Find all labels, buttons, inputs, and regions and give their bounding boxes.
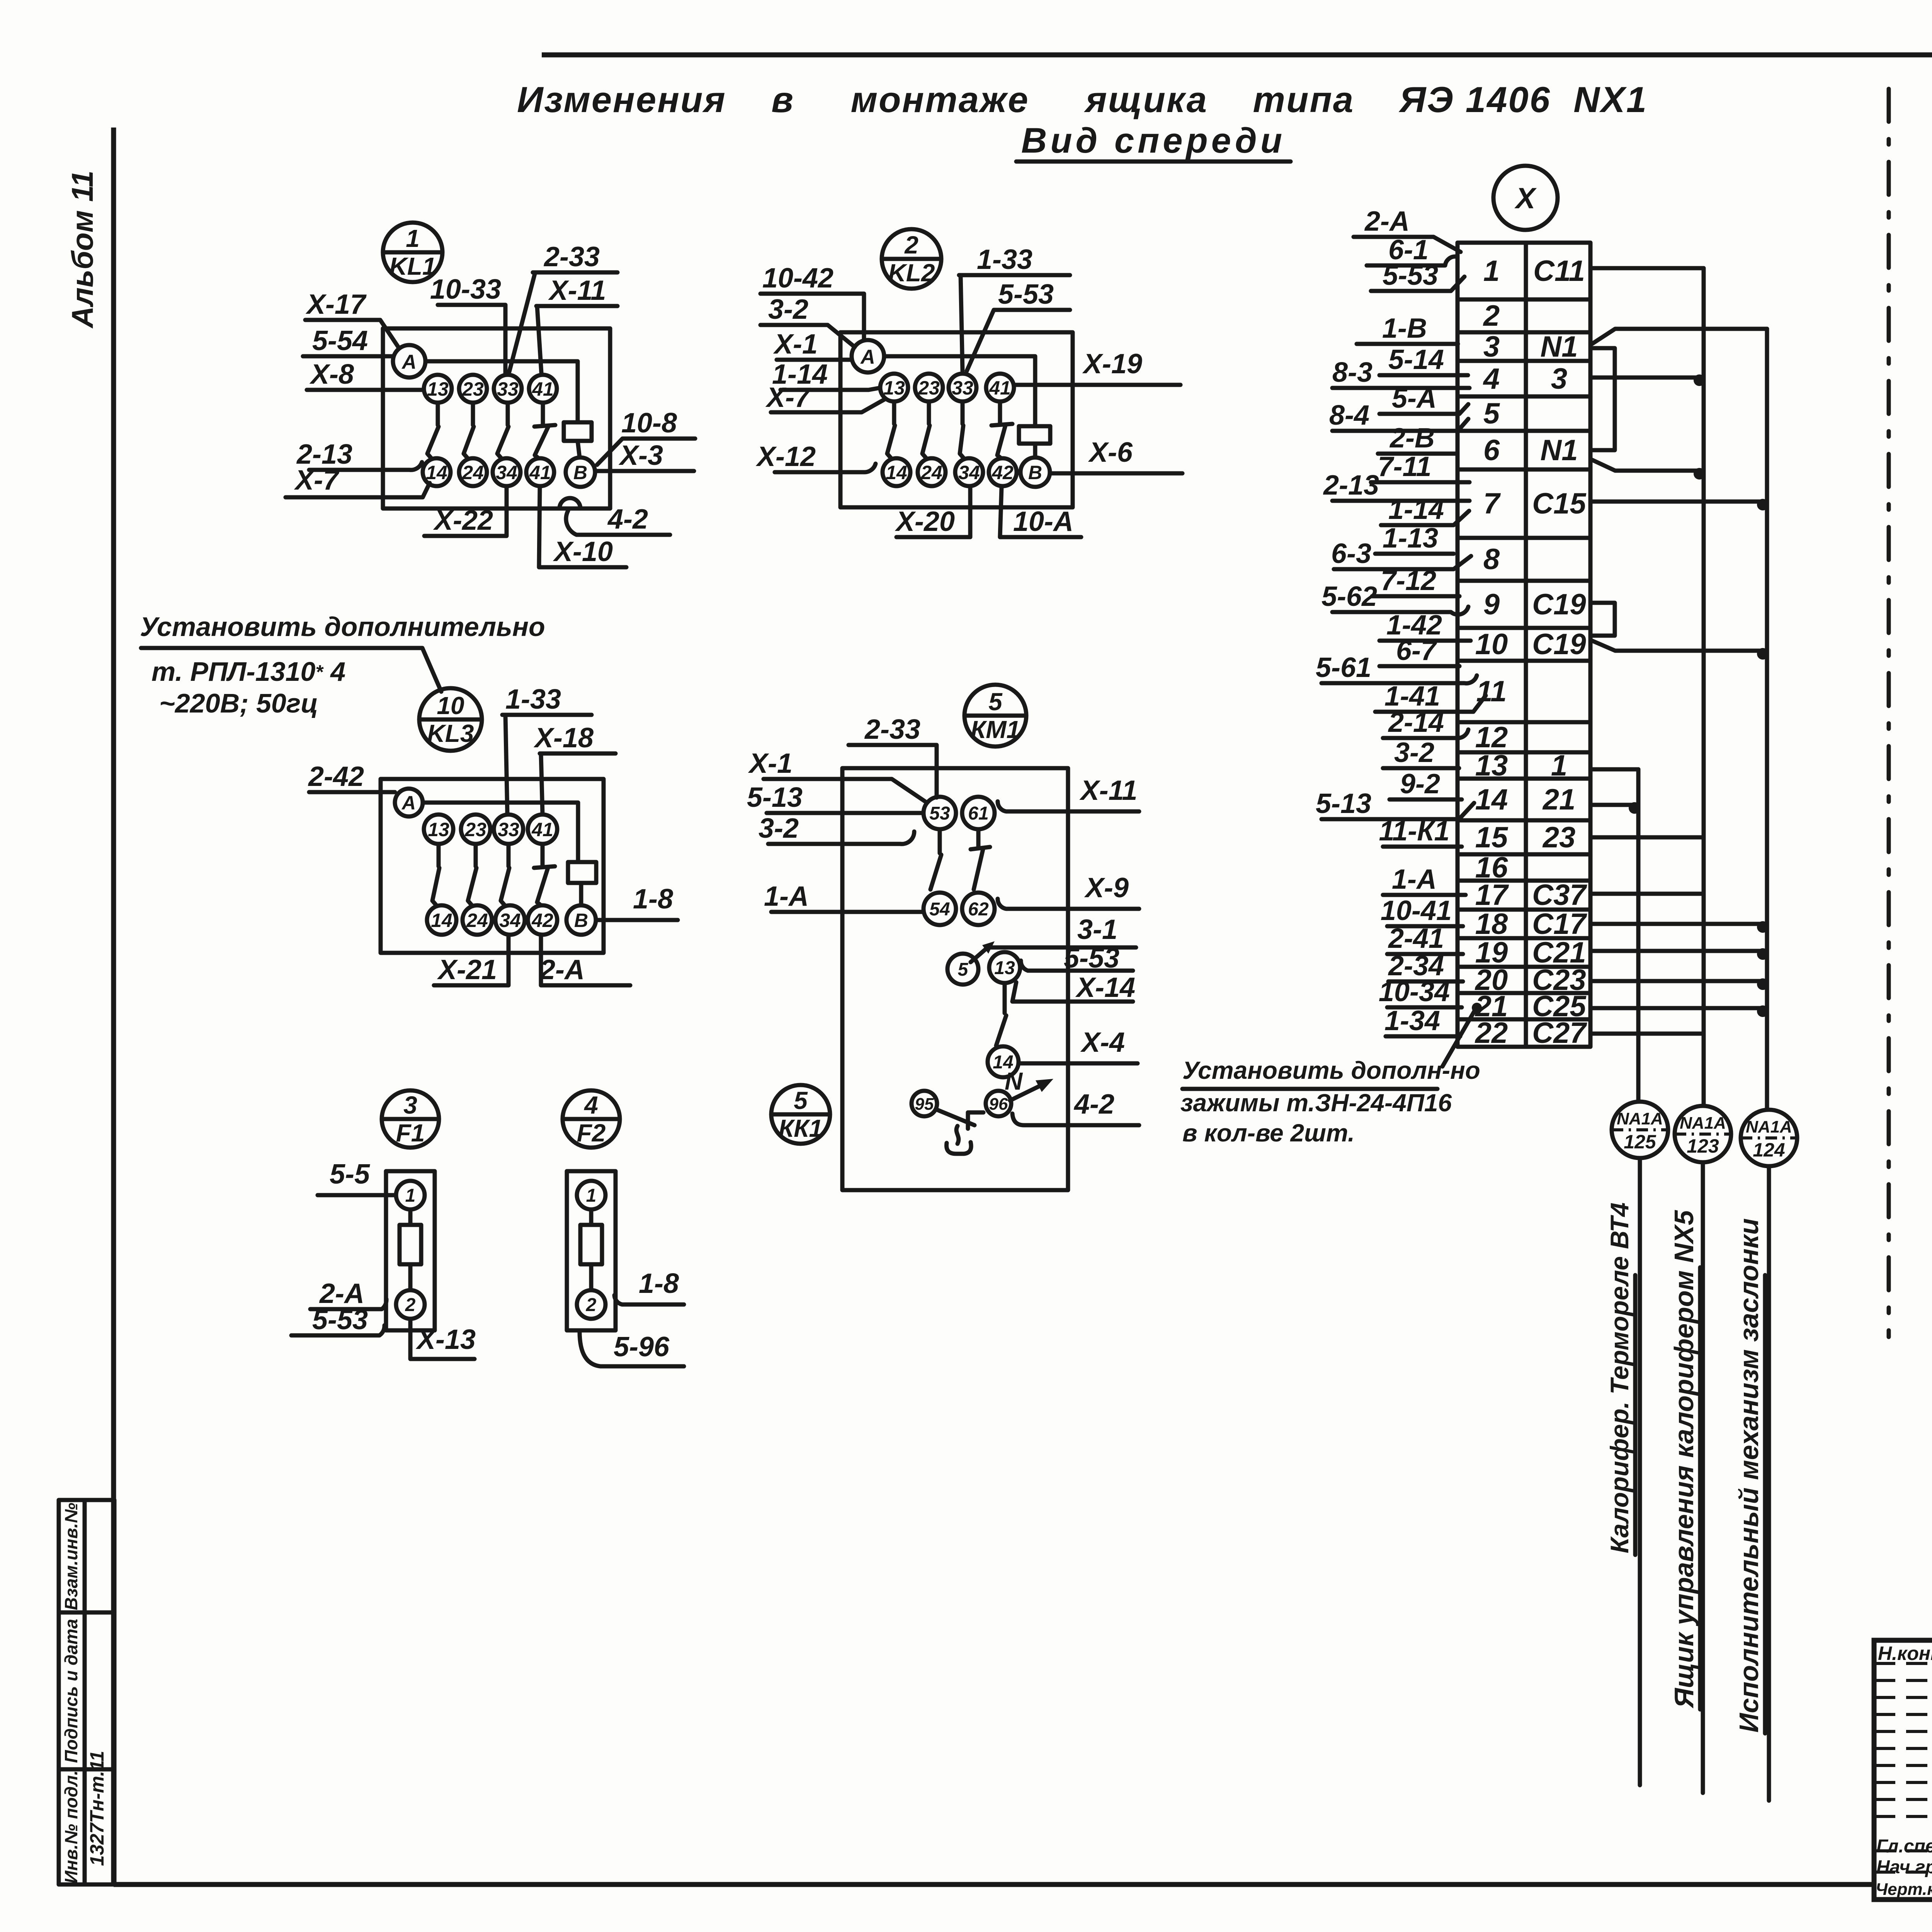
relay KL2 contact pin 33 — [949, 374, 976, 401]
wire 1-14 (KL2) — [772, 359, 879, 390]
svg-text:X-3: X-3 — [618, 440, 663, 471]
wire X-11 (KM1) — [998, 775, 1139, 811]
wire 1-33 (KL3) — [502, 684, 592, 814]
wire 2-13 (X7) — [1323, 470, 1469, 501]
wire 5-13 (KM1) — [747, 782, 923, 813]
svg-text:X-9: X-9 — [1084, 872, 1129, 903]
svg-text:N: N — [1005, 1067, 1023, 1095]
relay KL2 contact pin 14 — [883, 458, 910, 486]
svg-text:KL2: KL2 — [888, 259, 935, 287]
relay KL3 pin B — [566, 905, 596, 935]
svg-text:13: 13 — [883, 377, 905, 399]
wire X:7 to bus3 — [1592, 500, 1767, 504]
svg-text:1-13: 1-13 — [1383, 523, 1438, 554]
svg-text:2: 2 — [586, 1295, 597, 1315]
svg-text:5-53: 5-53 — [312, 1304, 368, 1335]
wire X:20 to bus3 — [1592, 979, 1767, 983]
svg-text:А: А — [401, 351, 417, 373]
wire X:14 to bus1 — [1592, 803, 1638, 807]
svg-text:23: 23 — [1542, 821, 1576, 854]
wire X-21 (KL3) — [434, 935, 509, 985]
svg-text:41: 41 — [532, 378, 554, 400]
wire 4-2 (KL1) — [566, 504, 670, 535]
wire 8-4 (X5) — [1329, 400, 1468, 431]
relay KL3 contact pin 33 — [494, 815, 523, 844]
svg-text:61: 61 — [968, 803, 988, 824]
svg-text:2-13: 2-13 — [1323, 470, 1379, 501]
svg-text:X-14: X-14 — [1075, 972, 1135, 1003]
relay KL1 contact pin 13 — [424, 375, 452, 403]
KM1 contact 13-14 — [996, 983, 1006, 1046]
relay KL1 contact pin 23 — [459, 375, 487, 403]
relay KL2 pin B — [1020, 457, 1050, 487]
svg-text:NА1А: NА1А — [1680, 1114, 1726, 1133]
svg-text:125: 125 — [1624, 1131, 1656, 1153]
wire X-1 (KM1) — [748, 748, 925, 801]
wire 5-53 (KM1) — [1021, 943, 1133, 974]
svg-text:X-4: X-4 — [1080, 1027, 1125, 1058]
svg-text:F1: F1 — [396, 1119, 425, 1147]
svg-text:8: 8 — [1483, 543, 1500, 576]
svg-text:7: 7 — [1483, 487, 1501, 520]
svg-text:15: 15 — [1475, 821, 1509, 854]
svg-text:2-А: 2-А — [1364, 206, 1410, 237]
relay KL3 pin A — [395, 789, 423, 816]
relay KL3 body outline — [381, 779, 604, 953]
KM1 contact 53-54 — [930, 829, 941, 889]
svg-text:11-К1: 11-К1 — [1379, 816, 1449, 847]
svg-text:КМ1: КМ1 — [971, 716, 1020, 743]
svg-text:2: 2 — [1483, 299, 1500, 332]
svg-text:24: 24 — [462, 462, 484, 483]
relay KL3 contact pin 41 — [528, 815, 557, 844]
bus wire to cable 125 — [1638, 769, 1640, 1785]
svg-text:2-14: 2-14 — [1388, 707, 1444, 738]
wire 2-33 (KM1) — [849, 714, 937, 798]
wire 3-2 (KL2) — [760, 294, 855, 347]
relay KL1 contact 2 — [471, 403, 475, 425]
wire 2-В (X6) — [1378, 423, 1456, 454]
svg-text:21: 21 — [1542, 783, 1576, 816]
svg-text:5: 5 — [794, 1087, 808, 1114]
svg-text:5-96: 5-96 — [614, 1332, 670, 1362]
svg-text:14: 14 — [886, 462, 907, 483]
KM1 pin 13 — [989, 952, 1020, 983]
wire 1-В (X3) — [1357, 313, 1458, 344]
fuse F2 cartridge — [589, 1209, 594, 1290]
wire 5-53 (F1) — [291, 1304, 384, 1335]
svg-text:123: 123 — [1687, 1135, 1719, 1157]
svg-text:13: 13 — [427, 378, 449, 400]
svg-text:14: 14 — [1475, 783, 1508, 816]
wire X:4 to bus2 — [1592, 376, 1704, 380]
cable marker NA1A 124 — [1741, 1110, 1797, 1166]
svg-text:Подпись и дата: Подпись и дата — [61, 1619, 81, 1763]
svg-text:41: 41 — [529, 462, 551, 483]
svg-text:23: 23 — [462, 378, 484, 400]
wire X:3 to bus3 — [1592, 329, 1767, 344]
svg-text:53: 53 — [929, 803, 950, 824]
svg-text:4-2: 4-2 — [607, 504, 648, 535]
svg-text:2: 2 — [904, 231, 918, 259]
svg-text:1: 1 — [1551, 749, 1567, 782]
wire 1-33 (KL2) — [959, 244, 1070, 371]
svg-text:5: 5 — [958, 959, 969, 980]
relay KL1 contact pin 34 — [493, 458, 520, 486]
svg-text:X-11: X-11 — [1079, 775, 1138, 806]
svg-text:Установить дополнительно: Установить дополнительно — [140, 612, 545, 642]
svg-text:6: 6 — [1483, 434, 1500, 467]
svg-text:8-4: 8-4 — [1329, 400, 1369, 431]
relay KL3 contact 1 — [437, 844, 441, 866]
svg-text:24: 24 — [466, 910, 488, 931]
cable marker NA1A 125 — [1612, 1102, 1668, 1158]
relay KL1 internal wire A to coil — [425, 361, 578, 422]
svg-text:Калорифер. Термореле ВТ4: Калорифер. Термореле ВТ4 — [1605, 1202, 1634, 1553]
KK1 pin 95 — [912, 1091, 937, 1116]
wire X:15 to bus2 — [1592, 835, 1704, 840]
relay KL3 contact pin 34 — [495, 905, 525, 935]
wire 2-А (KL3) — [539, 935, 630, 985]
svg-text:X-18: X-18 — [533, 723, 594, 753]
svg-text:X-11: X-11 — [548, 275, 606, 306]
relay KL1 contact 1 — [436, 403, 440, 425]
sheet left border — [111, 128, 116, 1884]
wire X-8 (KL1) — [307, 359, 424, 390]
wire 6-7 (X11) — [1379, 635, 1459, 666]
relay KL3 contact 4 — [541, 844, 545, 866]
wire X-4 (KM1) — [1020, 1027, 1138, 1063]
svg-text:5-13: 5-13 — [747, 782, 803, 813]
svg-text:95: 95 — [915, 1095, 934, 1114]
wire 6-1 (X1) — [1367, 235, 1456, 265]
svg-text:X-8: X-8 — [309, 359, 354, 390]
wire 5-61 (X11) — [1316, 652, 1477, 683]
svg-text:1-В: 1-В — [1382, 313, 1427, 344]
relay KL1 pin A — [393, 345, 425, 378]
sheet bottom border — [114, 1882, 1874, 1887]
relay KL3 contact 3 — [507, 844, 511, 866]
svg-text:23: 23 — [918, 377, 940, 399]
wire X:6 to bus2 — [1592, 460, 1704, 471]
svg-text:5-62: 5-62 — [1321, 581, 1377, 612]
relay KL1 contact 4 — [541, 403, 545, 425]
svg-text:2-41: 2-41 — [1388, 923, 1444, 954]
svg-text:5-5: 5-5 — [330, 1159, 370, 1190]
svg-text:2-42: 2-42 — [308, 761, 364, 792]
svg-text:X-7: X-7 — [765, 382, 811, 413]
svg-text:5-А: 5-А — [1392, 383, 1437, 414]
relay KL3 contact pin 24 — [463, 905, 492, 935]
wire X-17 (KL1) — [305, 289, 399, 348]
wire X-3 (KL1) — [596, 440, 694, 471]
wire X:1 to bus2 — [1590, 266, 1704, 270]
svg-text:5-61: 5-61 — [1316, 652, 1371, 683]
svg-text:А: А — [401, 792, 416, 814]
relay KL3 coil wire to pin B — [579, 883, 583, 905]
relay KL1 pin B — [566, 457, 595, 487]
svg-text:22: 22 — [1475, 1017, 1508, 1049]
svg-text:5-13: 5-13 — [1316, 788, 1371, 819]
wire 8-3 (X4) — [1332, 357, 1469, 388]
svg-text:C17: C17 — [1532, 908, 1587, 940]
wire X:10 to bus3 — [1592, 641, 1767, 651]
svg-text:зажимы т.ЗН-24-4П16: зажимы т.ЗН-24-4П16 — [1180, 1089, 1452, 1117]
svg-text:NА1А: NА1А — [1746, 1117, 1792, 1136]
svg-text:5-54: 5-54 — [312, 325, 368, 356]
svg-text:3: 3 — [1483, 330, 1500, 363]
svg-text:в кол-ве 2шт.: в кол-ве 2шт. — [1182, 1119, 1355, 1147]
KM1 pin 53 — [923, 797, 956, 829]
KM1 pin 62 — [962, 893, 995, 925]
wire X-1 (KL2) — [773, 329, 852, 360]
svg-text:34: 34 — [496, 462, 517, 483]
relay KL2 contact 3 — [961, 401, 965, 424]
relay KL3 contact pin 42 — [528, 905, 557, 935]
relay KL2 body outline — [840, 332, 1073, 507]
svg-text:10: 10 — [437, 692, 464, 719]
wire 10-33 (KL1) — [430, 274, 505, 373]
svg-text:F2: F2 — [577, 1119, 606, 1147]
wire 2-А (X1) — [1354, 206, 1461, 252]
svg-text:X-22: X-22 — [433, 505, 493, 536]
svg-text:C11: C11 — [1533, 255, 1585, 287]
KK1 thermal contact element — [937, 1110, 983, 1129]
wire 1-34 (X22) — [1384, 1005, 1460, 1036]
svg-text:1-34: 1-34 — [1384, 1005, 1440, 1036]
relay KL3 internal wire A to coil — [423, 803, 578, 862]
wire 1-41 (X11) — [1375, 681, 1486, 712]
svg-text:Изменения в монтаже: Изменения в монтаже ящика типа ЯЭ 1406 N… — [517, 79, 1648, 120]
relay KL2 reference bubble 2/KL2 — [882, 229, 941, 289]
svg-text:10-33: 10-33 — [430, 274, 501, 305]
svg-text:X-21: X-21 — [437, 954, 497, 985]
sheet top border — [542, 53, 1932, 58]
svg-text:9: 9 — [1483, 588, 1500, 621]
svg-text:т. РПЛ-1310* 4: т. РПЛ-1310* 4 — [151, 656, 345, 687]
title block texts — [1876, 1641, 1932, 1902]
wire 5-13 (X14) — [1316, 788, 1474, 819]
relay KL2 contact 1 — [892, 401, 896, 424]
wire X:13 to bus1 — [1592, 767, 1638, 772]
wire 5-96 (F2) — [580, 1332, 684, 1366]
svg-text:3: 3 — [403, 1091, 417, 1119]
wire 1-14 (X7) — [1381, 494, 1469, 525]
wire 10-34 (X21) — [1379, 976, 1462, 1007]
svg-text:13: 13 — [994, 958, 1015, 978]
svg-text:41: 41 — [989, 377, 1011, 399]
svg-text:54: 54 — [929, 899, 950, 920]
svg-text:X-12: X-12 — [755, 441, 816, 472]
wire 5-53 (X1) — [1371, 260, 1464, 291]
svg-text:X-17: X-17 — [305, 289, 367, 320]
wire 3-2 (X13) — [1383, 737, 1459, 768]
wire X:17 to bus2 — [1592, 892, 1704, 896]
wire 11-К1 (X15) — [1379, 816, 1462, 847]
svg-text:10-А: 10-А — [1013, 506, 1073, 537]
wire 2-14 (X12) — [1383, 707, 1468, 738]
wire 5-54 (KL1) — [303, 325, 393, 356]
svg-text:42: 42 — [531, 910, 553, 931]
svg-text:9-2: 9-2 — [1400, 769, 1440, 799]
svg-text:4: 4 — [1483, 362, 1500, 395]
svg-text:33: 33 — [498, 819, 519, 840]
KM1 pin 14 — [988, 1046, 1019, 1077]
svg-text:2: 2 — [405, 1295, 416, 1315]
relay KL2 contact pin 24 — [918, 458, 946, 486]
wire 10-В (KL1) — [597, 408, 695, 465]
wire 3-2 (KM1) — [759, 813, 914, 844]
svg-text:Черт.ком: Черт.ком — [1876, 1880, 1932, 1899]
wire X-12 (KL2) — [755, 441, 876, 472]
svg-text:34: 34 — [958, 462, 980, 483]
wire 1-В (KL3) — [596, 884, 678, 920]
relay KL2 coil wire to pin B — [1033, 444, 1037, 457]
svg-text:6-3: 6-3 — [1331, 538, 1371, 569]
svg-text:Гл.спец: Гл.спец — [1876, 1836, 1932, 1857]
main title block — [1874, 1640, 1932, 1900]
svg-text:2-33: 2-33 — [864, 714, 920, 745]
svg-text:96: 96 — [989, 1095, 1008, 1114]
fuse F1 reference bubble 3/F1 — [382, 1090, 439, 1148]
relay KL1 coil — [564, 422, 592, 441]
svg-text:~220В; 50гц: ~220В; 50гц — [159, 688, 318, 718]
wire X:21 to bus3 — [1592, 1006, 1767, 1010]
relay KL1 contact 3 — [506, 403, 510, 425]
svg-text:10-8: 10-8 — [621, 408, 677, 439]
relay KL2 contact 4 — [998, 401, 1002, 424]
svg-text:C19: C19 — [1532, 588, 1586, 621]
relay KL2 contact pin 23 — [915, 374, 943, 401]
svg-text:41: 41 — [531, 819, 553, 840]
wire X-20 (KL2) — [895, 488, 970, 537]
svg-text:1-8: 1-8 — [639, 1268, 679, 1299]
stamp block (bottom-left, outside frame) — [59, 1500, 114, 1884]
svg-text:10-41: 10-41 — [1381, 895, 1452, 926]
relay KL2 pin A — [852, 340, 884, 372]
svg-text:13: 13 — [1475, 749, 1508, 782]
svg-text:Альбом 11: Альбом 11 — [65, 170, 99, 328]
svg-text:KL1: KL1 — [389, 252, 436, 280]
svg-text:1: 1 — [1483, 255, 1500, 287]
wire 5-5 (F1) — [318, 1159, 395, 1195]
svg-text:33: 33 — [497, 378, 519, 400]
svg-text:3-1: 3-1 — [1077, 914, 1117, 945]
svg-text:4-2: 4-2 — [1073, 1089, 1114, 1120]
wire X-9 (KM1) — [998, 872, 1139, 909]
wire 6-3 (X8) — [1331, 538, 1471, 569]
svg-text:X-7: X-7 — [294, 465, 340, 496]
svg-text:X-1: X-1 — [773, 329, 818, 360]
relay KL1 contact pin 33 — [494, 375, 522, 403]
svg-text:5: 5 — [1483, 397, 1500, 430]
wire 2-33 (KL1) — [509, 241, 617, 372]
wire 5-14 (X4) — [1379, 344, 1468, 375]
relay KL1 reference bubble 1/KL1 — [383, 223, 442, 282]
contactor KM1 body outline — [842, 768, 1068, 1190]
svg-text:1: 1 — [406, 224, 420, 252]
KM1 pin-5 arrow — [982, 941, 995, 954]
wire X-6 (KL2) — [1050, 437, 1182, 473]
wire X-7 (KL2) — [765, 382, 886, 413]
relay KL3 contact 2 — [474, 844, 478, 866]
wire 10-41 (X18) — [1381, 895, 1463, 926]
svg-text:13: 13 — [428, 819, 449, 840]
relay KL1 coil wire to pin B — [578, 441, 580, 457]
svg-text:3-2: 3-2 — [759, 813, 799, 844]
contactor KM1 reference bubble 5/KM1 — [964, 685, 1026, 747]
jumper X:9-X:10 — [1592, 603, 1615, 636]
wire X:18 to bus3 — [1592, 922, 1767, 926]
relay KL2 contact pin 13 — [880, 374, 908, 401]
wire 1-В (F2) — [614, 1268, 684, 1304]
svg-text:X-19: X-19 — [1082, 349, 1142, 379]
note: install additionally ZN-24 terminals — [1180, 1003, 1482, 1147]
svg-text:KL3: KL3 — [427, 719, 474, 747]
svg-text:23: 23 — [464, 819, 486, 840]
svg-text:10-34: 10-34 — [1379, 976, 1450, 1007]
wire X-18 (KL3) — [533, 723, 616, 814]
svg-text:5: 5 — [988, 688, 1003, 716]
wire 7-11 (X7) — [1371, 451, 1469, 482]
svg-text:1-А: 1-А — [764, 881, 809, 912]
svg-text:124: 124 — [1753, 1139, 1785, 1161]
svg-text:14: 14 — [426, 462, 447, 483]
svg-text:В: В — [573, 462, 587, 483]
relay KL1 body outline — [383, 328, 610, 509]
KM1 pin 54 — [923, 893, 956, 925]
svg-text:Н.контр: Н.контр — [1878, 1643, 1932, 1664]
svg-text:1-14: 1-14 — [1388, 494, 1444, 525]
svg-text:C19: C19 — [1532, 628, 1586, 661]
relay KL1 contact pin 41 — [529, 375, 557, 403]
svg-text:3: 3 — [1551, 362, 1567, 395]
svg-text:C37: C37 — [1532, 879, 1587, 912]
svg-text:1: 1 — [586, 1185, 597, 1206]
wire 1-13 (X8) — [1375, 523, 1454, 554]
wire 2-41 (X19) — [1387, 923, 1463, 954]
svg-text:5-14: 5-14 — [1388, 344, 1444, 375]
wire 7-12 (X9) — [1372, 565, 1459, 596]
relay KL1 contact pin 14 — [423, 458, 451, 486]
svg-text:1327Тн-т.11: 1327Тн-т.11 — [86, 1751, 108, 1866]
svg-text:4: 4 — [583, 1091, 598, 1119]
wire 5-А (X5) — [1379, 383, 1468, 414]
relay KL1 contact pin 41 — [526, 458, 554, 486]
svg-text:2-А: 2-А — [539, 954, 585, 985]
fuse F2 body — [567, 1171, 616, 1330]
KK1 pin 96 — [986, 1091, 1011, 1116]
relay KL2 contact pin 34 — [955, 458, 983, 486]
svg-text:X-1: X-1 — [748, 748, 793, 779]
svg-text:2-В: 2-В — [1389, 423, 1435, 454]
relay KL3 contact pin 13 — [424, 815, 453, 844]
svg-text:24: 24 — [920, 462, 942, 483]
wire X:19 to bus3 — [1592, 949, 1767, 953]
svg-text:10-42: 10-42 — [762, 263, 833, 294]
svg-text:В: В — [1028, 462, 1042, 483]
KM1 pin 61 — [962, 797, 995, 829]
fuse F2 pin 1 — [577, 1181, 605, 1209]
wire 2-А (F1) — [310, 1278, 386, 1309]
svg-text:5-53: 5-53 — [998, 279, 1054, 310]
wire X-13 (F1) — [410, 1320, 476, 1359]
svg-text:Инв.№ подл.: Инв.№ подл. — [61, 1770, 81, 1884]
cable marker NA1A 123 — [1675, 1106, 1731, 1162]
svg-text:2-33: 2-33 — [543, 241, 600, 272]
bus wire to cable 124 — [1767, 329, 1769, 1801]
fuse F1 pin 1 — [396, 1181, 425, 1209]
